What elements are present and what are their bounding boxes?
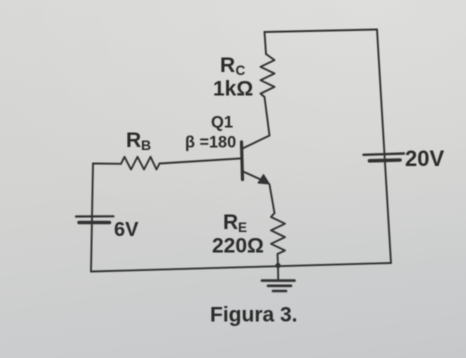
svg-text:220Ω: 220Ω: [212, 235, 264, 258]
svg-text:B: B: [141, 137, 151, 153]
svg-text:1kΩ: 1kΩ: [213, 78, 253, 101]
wire top (RC top to V2 plus): [265, 30, 378, 33]
wire bottom (ground rail): [91, 263, 391, 272]
resistor RB: [121, 157, 160, 170]
svg-text:R: R: [220, 54, 235, 77]
wire right (through 20V battery): [377, 30, 391, 264]
battery V1 6V negative plate: [79, 221, 110, 224]
wire RB left lead: [93, 163, 121, 165]
wire collector riser (Q1 to RC bottom): [265, 97, 270, 136]
resistor RE: [271, 213, 285, 254]
wire ground stub: [277, 266, 279, 280]
wire RE bottom lead: [277, 254, 280, 266]
wire left (6V branch): [91, 164, 93, 272]
transistor Q1 collector diagonal: [243, 136, 270, 149]
svg-text:C: C: [236, 63, 246, 78]
svg-text:Q1: Q1: [211, 114, 233, 132]
battery V2 20V negative plate: [370, 158, 401, 162]
wire base (RB to Q1 base): [160, 159, 241, 164]
resistor RC: [261, 54, 275, 97]
transistor Q1 emitter diagonal: [243, 172, 263, 181]
wire emitter (arrow to RE top): [270, 185, 275, 214]
svg-text:6V: 6V: [114, 219, 139, 241]
battery V2 20V positive plate: [364, 154, 405, 155]
svg-text:E: E: [238, 220, 247, 235]
svg-text:20V: 20V: [405, 146, 444, 171]
battery V1 6V positive plate: [76, 215, 114, 217]
transistor Q1 emitter arrowhead: [258, 175, 270, 185]
ground symbol: [262, 279, 295, 282]
svg-text:β =180: β =180: [185, 134, 236, 152]
svg-text:R: R: [126, 129, 141, 152]
svg-text:Figura 3.: Figura 3.: [210, 304, 298, 327]
transistor Q1 base bar: [242, 142, 243, 180]
node junction (RE to ground rail): [275, 263, 280, 268]
wire RC top lead: [265, 32, 267, 54]
svg-text:R: R: [223, 211, 238, 234]
